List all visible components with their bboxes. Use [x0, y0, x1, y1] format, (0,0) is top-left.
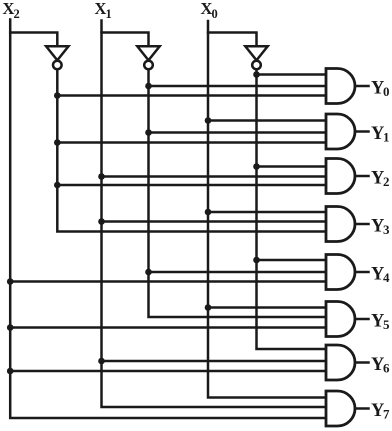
- wire X2' rail (inverter output, turns right to Y3 bottom input): [57, 70, 328, 232]
- inverter U2 (X1 inverter): [137, 46, 159, 69]
- junction X2' / Y0 bottom input: [54, 92, 61, 99]
- wire Y0 output: [355, 85, 369, 88]
- wire X2 input rail (vertical, turns right to Y7 bottom input): [10, 20, 328, 419]
- svg-text:1: 1: [106, 7, 112, 21]
- svg-text:0: 0: [212, 7, 218, 21]
- wire X0' to Y4 top input: [257, 259, 329, 262]
- svg-text:2: 2: [383, 174, 390, 189]
- junction X0' / Y4 top input: [253, 257, 260, 264]
- wire X0 to Y3 top input: [208, 211, 328, 214]
- wire Y4 output: [355, 271, 369, 274]
- wire X2 to Y5 bottom input: [10, 326, 328, 329]
- svg-text:4: 4: [383, 270, 390, 285]
- wire X2' to Y2 bottom input: [57, 184, 328, 187]
- junction X2 / Y6 bottom input: [7, 368, 14, 375]
- wire branch X0 to inverter input: [208, 33, 257, 47]
- svg-text:2: 2: [14, 7, 20, 21]
- AND gate Y5: [326, 302, 355, 337]
- wire X0' rail (inverter output, turns right to Y6 top input): [257, 70, 329, 350]
- AND gate Y0: [326, 69, 355, 104]
- wire X2' to Y0 bottom input: [57, 94, 328, 97]
- junction X1' / Y1 middle input: [145, 129, 152, 136]
- wire Y2 output: [355, 175, 369, 178]
- junction X0 / Y3 top input: [205, 209, 212, 216]
- svg-text:1: 1: [383, 130, 390, 145]
- wire X0' to Y2 top input: [257, 165, 329, 168]
- wire X1' to Y4 middle input: [149, 271, 329, 274]
- wire Y3 output: [355, 223, 369, 226]
- svg-text:6: 6: [383, 361, 390, 376]
- wire X1 to Y3 middle input: [102, 220, 329, 223]
- wire X2 to Y4 bottom input: [10, 280, 328, 283]
- svg-text:7: 7: [383, 407, 390, 422]
- wire X2 to Y6 bottom input: [10, 370, 328, 373]
- wire X2' to Y1 bottom input: [57, 141, 328, 144]
- AND gate Y6: [326, 345, 355, 380]
- junction X0 / Y1 top input: [205, 117, 212, 124]
- junction X1 / Y3 middle input: [98, 218, 105, 225]
- AND gate Y7: [326, 391, 355, 426]
- junction X2 / Y4 bottom input: [7, 278, 14, 285]
- AND gate Y4: [326, 255, 355, 290]
- inverter U3 (X0 inverter): [245, 46, 267, 69]
- AND gate Y3: [326, 207, 355, 242]
- junction X1' / Y0 middle input: [145, 83, 152, 90]
- wire X1' to Y0 middle input: [149, 85, 329, 88]
- wire X0 to Y1 top input: [208, 119, 328, 122]
- junction X2' / Y1 bottom input: [54, 139, 61, 146]
- AND gate Y2: [326, 159, 355, 194]
- wire X1 input rail (vertical, turns right to Y7 middle input): [102, 21, 329, 408]
- wire X0' to Y0 top input: [257, 73, 329, 76]
- wire Y6 output: [355, 361, 369, 364]
- wire branch X1 to inverter input: [102, 33, 149, 47]
- junction X2' / Y2 bottom input: [54, 182, 61, 189]
- svg-text:0: 0: [383, 84, 390, 99]
- wire branch X2 to inverter input: [10, 33, 57, 47]
- junction X2 / Y5 bottom input: [7, 324, 14, 331]
- svg-text:3: 3: [383, 222, 390, 237]
- junction X1 / Y6 middle input: [98, 358, 105, 365]
- junction X0 / Y5 top input: [205, 304, 212, 311]
- wire X0 to Y5 top input: [208, 306, 328, 309]
- wire Y1 output: [355, 130, 369, 133]
- wire X1' rail (inverter output, turns right to Y5 middle input): [149, 70, 329, 318]
- wire X0 input rail (vertical, turns right to Y7 top input): [208, 21, 328, 398]
- junction X1 / Y2 middle input: [98, 173, 105, 180]
- junction X0' / Y2 top input: [253, 163, 260, 170]
- AND gate Y1: [326, 114, 355, 149]
- inverter U1 (X2 inverter): [46, 46, 68, 69]
- wire X1' to Y1 middle input: [149, 131, 329, 134]
- junction X1' / Y4 middle input: [145, 269, 152, 276]
- junction X0' / Y0 top input: [253, 71, 260, 78]
- wire Y5 output: [355, 318, 369, 321]
- wire X1 to Y2 middle input: [102, 175, 329, 178]
- svg-text:5: 5: [383, 317, 390, 332]
- wire Y7 output: [355, 407, 369, 410]
- wire X1 to Y6 middle input: [102, 360, 329, 363]
